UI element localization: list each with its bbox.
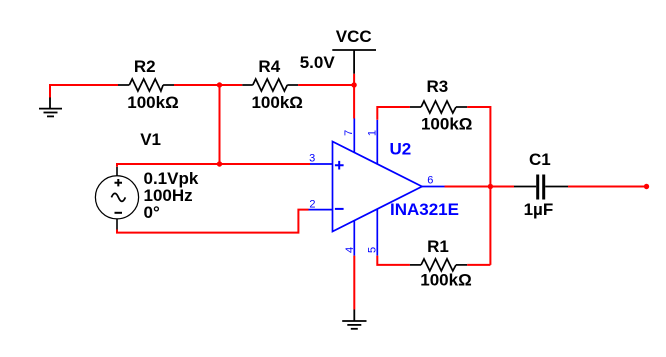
op-amp plus input mark: [335, 161, 344, 170]
wire node A down to node C: [219, 85, 221, 164]
svg-text:5.0V: 5.0V: [300, 53, 336, 72]
node B junction: [351, 82, 356, 87]
wire pin 5 to R1: [377, 256, 410, 265]
svg-text:2: 2: [309, 199, 315, 211]
wire pin 1 to R3: [377, 107, 410, 120]
pin 5 lead: [376, 209, 378, 256]
ground GND2: [342, 310, 366, 329]
node E output endpoint: [644, 184, 649, 189]
svg-text:100kΩ: 100kΩ: [251, 93, 302, 112]
wire V1 top to pin 3: [117, 164, 310, 167]
svg-text:100kΩ: 100kΩ: [127, 93, 178, 112]
svg-text:1: 1: [366, 130, 378, 136]
resistor R2: [118, 79, 174, 91]
svg-text:R2: R2: [134, 57, 156, 76]
svg-text:V1: V1: [140, 130, 161, 149]
wire R2 to node A: [174, 84, 242, 86]
svg-text:7: 7: [343, 130, 355, 136]
svg-text:VCC: VCC: [336, 27, 372, 46]
wire VCC stem to pin 7: [353, 74, 355, 119]
svg-text:3: 3: [309, 152, 315, 164]
wire ground to R2: [50, 85, 118, 98]
svg-text:4: 4: [344, 247, 356, 253]
svg-text:R4: R4: [258, 57, 280, 76]
svg-text:5: 5: [366, 247, 378, 253]
wire pin 6 to C1: [445, 186, 515, 188]
node A junction: [217, 82, 222, 87]
wire R3 to right rail down to R1: [467, 107, 490, 265]
pin 4 lead: [353, 221, 355, 256]
svg-text:R1: R1: [427, 237, 449, 256]
wire R1 to right rail: [467, 264, 490, 266]
resistor R1: [410, 259, 467, 271]
wire pin 4 to ground: [353, 256, 355, 310]
svg-text:6: 6: [427, 175, 433, 187]
svg-text:100kΩ: 100kΩ: [420, 271, 471, 290]
svg-text:100kΩ: 100kΩ: [421, 114, 472, 133]
ground GND1: [39, 98, 62, 117]
pin 6 lead: [422, 186, 445, 188]
pin 7 lead: [353, 119, 355, 153]
svg-text:U2: U2: [390, 139, 412, 158]
svg-text:0°: 0°: [144, 203, 160, 222]
svg-text:1µF: 1µF: [524, 200, 554, 219]
node D output junction: [488, 184, 493, 189]
pin 1 lead: [376, 120, 378, 164]
svg-text:R3: R3: [427, 77, 449, 96]
wire V1 bottom to pin 2: [117, 210, 309, 233]
node C junction: [217, 161, 222, 166]
wire C1 to output: [568, 186, 647, 188]
resistor R4: [242, 79, 298, 91]
wire R4 to node B: [298, 84, 354, 86]
pin 3 lead: [310, 163, 333, 165]
op-amp U2 triangle: [333, 142, 423, 232]
svg-text:C1: C1: [529, 150, 551, 169]
resistor R3: [410, 101, 467, 113]
voltage source V1: [95, 167, 138, 230]
power symbol VCC: [332, 50, 376, 74]
op-amp minus input mark: [335, 208, 344, 210]
pin 2 lead: [309, 209, 333, 211]
capacitor C1: [514, 175, 568, 200]
svg-text:INA321E: INA321E: [390, 200, 459, 219]
